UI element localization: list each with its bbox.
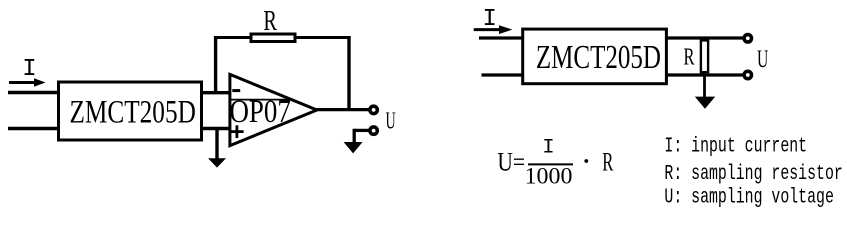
wire bottom input (right circuit)	[482, 73, 525, 76]
resistor R1 feedback	[251, 34, 295, 42]
wire top output (right circuit)	[665, 36, 744, 39]
terminal U- (left circuit)	[370, 127, 377, 134]
terminal U- (right circuit)	[744, 71, 751, 78]
input current arrow (left circuit)	[9, 78, 46, 87]
transformer T1 ZMCT205D (left circuit)	[59, 82, 202, 140]
svg-text:R: R	[684, 45, 695, 71]
wire bottom output (right circuit)	[665, 73, 744, 76]
svg-text:R: R	[263, 6, 277, 37]
wire feedback top left segment	[214, 36, 251, 39]
ground (input side, left circuit)	[208, 129, 226, 168]
wire top input (left circuit)	[8, 91, 58, 94]
wire top output to op-amp inverting input	[200, 91, 231, 94]
wire feedback top right segment	[295, 36, 351, 39]
ground (right circuit)	[695, 73, 715, 109]
wire bottom input (left circuit)	[8, 127, 58, 130]
op-amp U1 OP07	[230, 74, 317, 145]
terminal U+ (right circuit)	[744, 35, 751, 42]
svg-text:U: U	[757, 46, 768, 74]
svg-text:R: R	[602, 147, 613, 177]
wire op-amp output	[315, 108, 370, 111]
svg-text:U: sampling voltage: U: sampling voltage	[664, 186, 833, 209]
formula fraction bar	[528, 163, 573, 165]
resistor R2 sampling	[701, 40, 708, 72]
svg-text:ZMCT205D: ZMCT205D	[536, 40, 661, 76]
transformer T2 ZMCT205D (right circuit)	[523, 29, 667, 84]
wire lower terminal to ground (left circuit)	[354, 129, 369, 143]
terminal U+ (left circuit)	[370, 106, 377, 113]
svg-text:ZMCT205D: ZMCT205D	[70, 94, 196, 130]
svg-text:OP07: OP07	[230, 95, 291, 130]
input current arrow (right circuit)	[474, 25, 513, 34]
svg-text:1000: 1000	[525, 164, 573, 189]
svg-text:I: input current: I: input current	[664, 135, 807, 158]
formula multiplication dot	[584, 159, 588, 163]
svg-text:U=: U=	[497, 149, 525, 178]
svg-text:I: I	[542, 137, 554, 160]
ground (output side, left circuit)	[344, 142, 363, 153]
wire feedback left vertical	[214, 36, 217, 94]
svg-text:R: sampling resistor: R: sampling resistor	[664, 163, 842, 186]
wire feedback right vertical	[347, 36, 350, 111]
wire top input (right circuit)	[479, 36, 524, 39]
wire bottom output to op-amp non-inverting input	[200, 127, 231, 130]
svg-text:U: U	[386, 108, 396, 135]
